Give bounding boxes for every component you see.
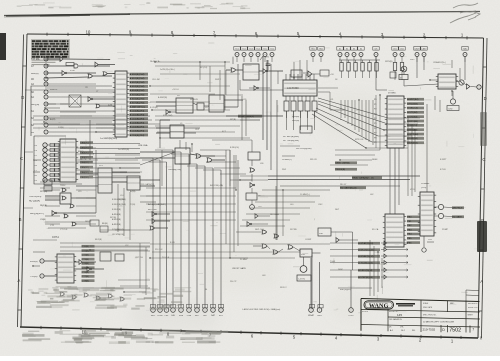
svg-text:7: 7	[472, 328, 474, 332]
sheet frame left border double line	[21, 34, 27, 327]
wire C7 to U3	[47, 169, 60, 171]
box L44	[318, 228, 331, 236]
wire C3 to U3	[47, 149, 60, 151]
svg-text:RD GATE: RD GATE	[452, 216, 462, 219]
net label SD3(B)(2H4)	[130, 85, 149, 88]
svg-text:+5V: +5V	[330, 74, 334, 76]
svg-text:A SD6(B)(2H4): A SD6(B)(2H4)	[130, 97, 145, 100]
connector C7	[34, 168, 47, 172]
connector RXD	[30, 259, 44, 263]
svg-text:CHK.: CHK.	[400, 326, 404, 328]
net label U7-8	[82, 279, 95, 282]
svg-text:CS(B): CS(B)	[40, 219, 46, 221]
svg-text:2ND VARIATION: 2ND VARIATION	[389, 318, 402, 321]
net row STEP(B)(J4)	[358, 275, 408, 279]
net label U7-0	[82, 245, 95, 248]
diagonal fan wires	[312, 98, 388, 148]
svg-text:TRD 2(B14): TRD 2(B14)	[29, 196, 41, 198]
wires U7	[44, 260, 57, 262]
crystal Y1	[300, 257, 307, 272]
svg-text:# ASSO-402 REF. PAD SCH(+.5MA: # ASSO-402 REF. PAD SCH(+.5MA)(xxx)	[242, 308, 281, 311]
wire C5 to U3	[47, 179, 60, 181]
svg-text:DRQ(B): DRQ(B)	[31, 104, 39, 106]
connector top CBSY	[421, 47, 427, 57]
flipflop U8	[176, 98, 193, 113]
net row DIRC(B)(J4)	[358, 268, 408, 272]
bottom border zone ticks and numbers	[41, 326, 481, 344]
svg-text:10-2: 10-2	[401, 330, 405, 332]
svg-text:TD6: TD6	[270, 49, 273, 51]
svg-text:A SD3(B)(2H4): A SD3(B)(2H4)	[130, 85, 145, 88]
xor gate G6	[103, 72, 115, 76]
svg-text:CNT A: CNT A	[52, 236, 59, 239]
net label U14-0	[407, 216, 420, 219]
svg-text:A WGAT(B)(J4): A WGAT(B)(J4)	[358, 255, 373, 258]
net label SD5(B)(2H4)	[130, 93, 149, 96]
component K1 box with diagonal	[69, 95, 81, 107]
chain box D	[246, 193, 257, 200]
wires U15 gates	[434, 206, 438, 208]
svg-text:B4 COM(+5A): B4 COM(+5A)	[210, 184, 223, 187]
svg-text:S3: S3	[353, 49, 355, 51]
IC U15 VCO data separator	[418, 192, 436, 236]
gates above osc	[262, 230, 279, 238]
inner section box upper-left	[31, 86, 112, 184]
connector RX	[31, 130, 48, 134]
wire C2 to U3	[47, 154, 60, 156]
svg-text:DS1: DS1	[393, 49, 397, 51]
svg-text:A SD7(B)(2H4): A SD7(B)(2H4)	[130, 101, 145, 104]
dark blotch on right border	[477, 221, 487, 252]
net label U14-1	[407, 220, 420, 223]
xor gate G22	[288, 245, 293, 249]
net label SD6(B)(2H4)	[130, 97, 149, 100]
connector C2	[34, 153, 47, 157]
svg-text:C: C	[20, 156, 23, 161]
faint scan blotches	[40, 60, 470, 330]
vertical bus lines to bottom connector row	[153, 150, 221, 308]
net label U13-3	[407, 111, 424, 114]
svg-text:L41 8X300: L41 8X300	[287, 87, 299, 90]
connector A4	[31, 82, 48, 86]
net label U13-6	[407, 124, 424, 127]
svg-text:TXD(B): TXD(B)	[30, 276, 38, 278]
net row WGAT(B)(J4)	[358, 254, 408, 258]
net label U3-4	[80, 161, 93, 164]
rev strip above title block	[466, 290, 479, 301]
svg-text:DT(B): DT(B)	[58, 127, 64, 129]
net label SD4(B)(2H4)	[130, 89, 149, 92]
svg-text:WD1(B): WD1(B)	[292, 120, 299, 122]
svg-text:CBSY: CBSY	[422, 49, 428, 51]
net label SD0(B)(2H4)	[130, 73, 149, 76]
connector A6	[31, 90, 48, 94]
connector TXD	[30, 274, 44, 278]
svg-text:145: 145	[397, 313, 402, 317]
svg-text:B TG43(C)(J4): B TG43(C)(J4)	[358, 263, 373, 265]
top border zone ticks and numbers	[47, 29, 467, 39]
svg-text:WT2(B): WT2(B)	[40, 191, 47, 193]
svg-text:D: D	[484, 96, 487, 101]
connector top HS2	[318, 47, 324, 57]
svg-text:A SD1(B)(2H4): A SD1(B)(2H4)	[130, 77, 145, 80]
title block horizontal dividers	[361, 310, 480, 328]
wires from rows to left	[330, 243, 358, 277]
chain gate B	[250, 168, 255, 172]
net label U13-4	[407, 115, 424, 118]
connector DRQ(B)	[31, 102, 48, 106]
svg-text:210-7502: 210-7502	[423, 328, 436, 332]
svg-text:10 MEG FLOPPY CONTROLLER: 10 MEG FLOPPY CONTROLLER	[423, 322, 455, 324]
gate G18	[467, 84, 470, 89]
net label U14-5	[407, 237, 420, 240]
general notes block	[31, 39, 70, 65]
connector C3	[34, 148, 47, 152]
chain circle E	[250, 205, 255, 210]
smudged gate row bottom-left	[60, 292, 124, 301]
connector C1	[34, 158, 47, 162]
inline label boxes C4	[50, 143, 54, 146]
component L5 box	[60, 193, 71, 204]
svg-text:D: D	[442, 328, 445, 332]
svg-text:(2C4): (2C4)	[421, 187, 427, 189]
lower FF U16	[170, 125, 184, 138]
connector bottom WDATA	[308, 305, 315, 318]
small comp row boxes	[100, 252, 124, 261]
IC U10 controller	[283, 80, 317, 96]
net label U13-1	[407, 102, 424, 105]
connector top MIN	[462, 47, 468, 57]
gate circle G19	[438, 204, 443, 218]
connector bottom DAT	[210, 305, 215, 318]
IC U2 buffer-latch	[113, 71, 129, 137]
svg-text:+5V: +5V	[428, 239, 432, 241]
cap C1	[266, 60, 271, 70]
net label U14-3	[407, 228, 420, 231]
net label U14-2	[407, 224, 420, 227]
svg-text:CRDY: CRDY	[414, 49, 420, 51]
svg-text:WR PROT: WR PROT	[452, 208, 463, 210]
scanner black mark left edge	[0, 33, 6, 60]
scan ghost text smudge top	[17, 3, 251, 10]
small box between U8 U9	[197, 103, 204, 110]
net row WDAT(B)(J4)	[358, 241, 408, 245]
component U5 small	[127, 176, 140, 190]
svg-text:B WCLK(C)(J4): B WCLK(C)(J4)	[358, 250, 373, 252]
LED D1	[450, 91, 455, 104]
svg-text:HS2: HS2	[319, 49, 323, 51]
gate G9	[52, 211, 96, 216]
flipflop U4	[98, 168, 112, 193]
title block vertical dividers	[388, 300, 470, 333]
svg-text:TD2: TD2	[242, 49, 245, 51]
connector bottom WRT	[194, 305, 200, 318]
net label U3-0	[80, 141, 93, 144]
svg-text:S2: S2	[346, 49, 348, 51]
connector top TD2	[241, 47, 247, 57]
wires U4	[76, 173, 98, 175]
connector top TD1	[234, 47, 240, 57]
svg-text:RX: RX	[31, 132, 35, 134]
svg-text:SEEK: SEEK	[372, 159, 378, 161]
connector bottom TDRY	[348, 308, 354, 317]
net label U13-0	[407, 98, 424, 101]
flipflop U6	[175, 148, 190, 164]
net label U7-4	[82, 262, 95, 265]
left border stub wires	[23, 90, 33, 208]
gate G23	[166, 110, 176, 115]
IC U13 PIO	[385, 96, 406, 148]
pull-up resistor bank RP1	[339, 60, 380, 78]
gate G5	[95, 62, 115, 67]
box small right1	[390, 72, 396, 78]
gate G16	[226, 68, 243, 72]
connector bottom PRM	[186, 305, 191, 318]
scattered tiny annotation texts	[50, 59, 449, 291]
svg-text:REVISED BY: REVISED BY	[468, 303, 479, 305]
sheet frame bottom border	[20, 327, 478, 338]
transistor Q2	[459, 80, 464, 85]
svg-text:READ DATA(B)(7, J4): READ DATA(B)(7, J4)	[352, 177, 374, 180]
svg-text:STR(2H4): STR(2H4)	[163, 115, 173, 117]
U15 bottom termination	[423, 236, 425, 247]
wires U3 outputs	[93, 144, 140, 178]
interior scan speckle texture	[37, 43, 482, 313]
svg-text:I/O BRD: I/O BRD	[388, 93, 396, 95]
LED label box	[447, 106, 459, 111]
net label U7-3	[82, 258, 95, 261]
gate G4 cluster	[45, 74, 112, 78]
gates right of osc	[336, 238, 358, 243]
connector bottom COML	[157, 305, 164, 318]
extra left-mid wires	[33, 148, 160, 230]
svg-text:A0(B): A0(B)	[50, 118, 56, 121]
gates small under U10 drivers	[287, 111, 315, 118]
connector bottom SEL	[202, 305, 207, 318]
op-amp A1	[303, 71, 320, 77]
smudge band below frame	[22, 329, 228, 344]
svg-text:TD5: TD5	[263, 49, 266, 51]
connector top TD6	[269, 47, 275, 57]
svg-text:D: D	[21, 95, 24, 100]
net label U14-4	[407, 233, 420, 236]
svg-text:HS1: HS1	[311, 49, 315, 51]
connector right edge CR1	[471, 85, 482, 89]
xor gate G10	[190, 154, 215, 159]
net label U3-2	[80, 151, 93, 154]
wires U16	[156, 127, 170, 129]
svg-text:A: A	[480, 279, 483, 284]
net label CD0(B)(2F4)	[130, 109, 149, 112]
scan fold line across top	[4, 12, 480, 16]
transistor Q1	[401, 66, 407, 72]
svg-text:B IDX(C4): B IDX(C4)	[407, 125, 417, 127]
svg-text:A SD4(B)(2H4): A SD4(B)(2H4)	[130, 89, 145, 92]
connector C5	[34, 178, 47, 182]
svg-text:WD CLK(B)(2H4): WD CLK(B)(2H4)	[296, 148, 312, 150]
inline label boxes C2	[50, 153, 54, 156]
connector RIW(B)	[31, 71, 48, 75]
svg-text:A SD5(B)(2H4): A SD5(B)(2H4)	[130, 93, 145, 96]
svg-text:TRK00(B): TRK00(B)	[335, 169, 345, 171]
connector bottom LWR	[317, 305, 323, 318]
svg-text:C: C	[482, 157, 485, 162]
connector top TD3	[248, 47, 254, 57]
svg-text:NOTES: NOTES	[362, 311, 369, 313]
svg-text:A CD5(B)(2F4): A CD5(B)(2F4)	[130, 130, 145, 133]
net label U7-1	[82, 249, 95, 252]
wire C1 to U3	[47, 159, 60, 161]
net label U13-8	[407, 133, 424, 136]
svg-text:DRQ(B)(4C7): DRQ(B)(4C7)	[30, 213, 44, 215]
IC U12 driver	[436, 74, 458, 89]
bus wires mid left	[33, 90, 170, 128]
connector top TD4	[255, 47, 261, 57]
svg-text:PUMP: PUMP	[442, 229, 449, 231]
smudge scribbles bottom-left	[28, 286, 191, 310]
connector C4	[34, 143, 47, 147]
flipflop U9	[209, 95, 224, 112]
net label U3-7	[80, 176, 93, 179]
connector A1	[31, 109, 48, 113]
sheet frame right border double line	[478, 38, 484, 338]
gate G15	[74, 267, 104, 272]
small gates center-left bottom	[152, 212, 170, 217]
svg-text:LWR: LWR	[317, 315, 322, 317]
text rows center-left lower	[40, 191, 126, 236]
svg-text:RIW(B): RIW(B)	[31, 73, 39, 75]
right border zone letters and marks	[479, 67, 487, 311]
svg-text:B RD(C4): B RD(C4)	[230, 147, 239, 149]
gates left lower group	[62, 188, 76, 226]
gate G14	[74, 260, 96, 265]
wires U8 U9	[156, 101, 176, 103]
title block outline	[361, 299, 480, 331]
extra tiny labels left-mid	[50, 151, 136, 227]
svg-text:CRD GATE(2J): CRD GATE(2J)	[140, 183, 154, 186]
svg-text:FD CA: FD CA	[372, 228, 379, 231]
svg-text:CREADY(B+): CREADY(B+)	[433, 61, 446, 64]
labels right of center	[335, 161, 357, 164]
connector bottom WRL	[150, 305, 156, 318]
svg-text:CRD(B)(2J4): CRD(B)(2J4)	[168, 169, 181, 171]
svg-text:WPS(B): WPS(B)	[385, 61, 393, 63]
svg-text:TXT MA: TXT MA	[31, 58, 40, 61]
net label SD2(B)(2H4)	[130, 81, 149, 84]
wire C4 to U3	[47, 144, 60, 146]
chain wires	[251, 160, 253, 166]
connector top CRDY	[414, 47, 421, 57]
net label SMP	[130, 105, 149, 108]
net label SD1(B)(2H4)	[130, 77, 149, 80]
connector bottom CAL	[170, 305, 175, 318]
svg-text:RD GATE(B)(J4): RD GATE(B)(J4)	[340, 187, 357, 190]
svg-text:WCK 2: WCK 2	[280, 287, 287, 289]
wires into U6	[140, 151, 175, 153]
svg-text:TD3: TD3	[249, 49, 252, 51]
net label SMP DATA	[238, 115, 262, 118]
inline label boxes C8	[50, 163, 54, 166]
svg-text:WT TRK(B)(2H4): WT TRK(B)(2H4)	[283, 140, 299, 142]
horizontal cross wires over bus	[146, 188, 236, 220]
connector top DS2	[399, 47, 405, 57]
connector top DS1	[392, 47, 398, 57]
svg-text:TD4: TD4	[256, 49, 259, 51]
svg-text:A WPT(B4): A WPT(B4)	[407, 133, 418, 136]
read data labels	[352, 176, 382, 179]
net label U3-1	[80, 146, 93, 149]
svg-text:WD0(B): WD0(B)	[292, 116, 299, 118]
net label U13-5	[407, 120, 424, 123]
svg-text:CB0(2C): CB0(2C)	[80, 143, 89, 145]
inverter G3	[45, 71, 96, 76]
pencil note top right	[450, 3, 480, 23]
net label CD5(B)(2F4)	[130, 129, 149, 132]
extra wire mesh for density	[33, 60, 460, 296]
net label U7-7	[82, 275, 95, 278]
net label U3-6	[80, 171, 93, 174]
connector bottom CBL	[164, 305, 169, 318]
net label CD1(B)(2F4)	[130, 113, 149, 116]
net row TG43(C)(J4)	[358, 261, 408, 265]
net label CD3(B)(2F4)	[130, 121, 149, 124]
svg-text:B SEL(C4): B SEL(C4)	[407, 108, 418, 110]
connector top IDX	[373, 47, 379, 57]
wire L44	[331, 231, 353, 233]
svg-text:TG43: TG43	[330, 261, 336, 263]
gate G17	[259, 69, 283, 84]
inline label boxes C5	[50, 178, 54, 181]
gate G8	[96, 104, 115, 108]
svg-text:B: B	[19, 217, 22, 222]
small gate G13	[150, 226, 168, 230]
connector bottom RDY	[218, 305, 223, 318]
svg-text:+5V: +5V	[265, 57, 269, 59]
connector TXT MA	[31, 57, 48, 61]
svg-text:A WDAT(B)(J4): A WDAT(B)(J4)	[358, 242, 373, 245]
svg-text:WT(B): WT(B)	[230, 119, 236, 121]
gate G2	[45, 64, 110, 68]
svg-text:MODEL 2 F.F.P: MODEL 2 F.F.P	[468, 307, 479, 309]
extra small boxes left-mid	[44, 180, 108, 232]
chain gate C	[250, 183, 255, 188]
driver box vertical wires down	[48, 111, 330, 232]
net label U3-5	[80, 166, 93, 169]
chain small box A	[248, 152, 260, 160]
rail SMP	[226, 115, 283, 117]
box L22	[300, 126, 312, 133]
laboratories text	[396, 303, 415, 306]
inline label boxes C7	[50, 168, 54, 171]
long wires right side	[394, 148, 396, 214]
svg-text:A ST1(B4): A ST1(B4)	[407, 111, 417, 114]
svg-text:B SMP INPT(C): B SMP INPT(C)	[130, 106, 146, 108]
svg-text:SHEET: SHEET	[468, 315, 473, 317]
connector top S4	[358, 47, 364, 57]
svg-text:DIRC: DIRC	[338, 269, 344, 271]
paper scan noise texture	[0, 0, 1, 1]
net label U13-9	[407, 137, 424, 140]
crystal label box	[297, 275, 311, 281]
wires bottomleft mesh	[60, 243, 150, 295]
IC U7 uart	[55, 254, 76, 283]
inline label boxes C3	[50, 148, 54, 151]
svg-text:CT CLK: CT CLK	[60, 229, 68, 231]
small gate G12	[152, 219, 170, 224]
gates mid2	[247, 222, 268, 227]
svg-text:SEEK CMP(B): SEEK CMP(B)	[335, 163, 349, 165]
net label U13-10	[407, 141, 424, 144]
